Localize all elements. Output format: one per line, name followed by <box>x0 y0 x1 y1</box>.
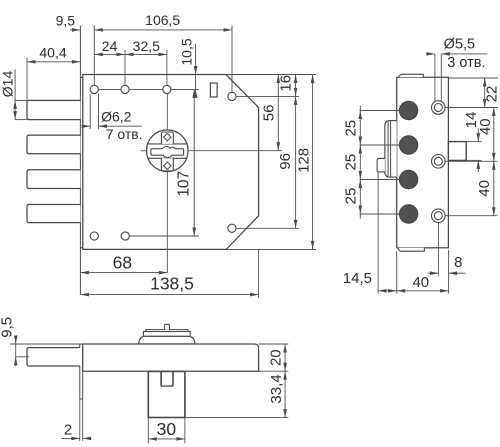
extension line from hole H2 up <box>124 50 126 85</box>
mounting hole H1 Ø6,2 <box>90 85 98 93</box>
svg-text:Ø6,2: Ø6,2 <box>101 109 132 125</box>
top holes center line <box>99 88 121 90</box>
screw hole S2 Ø5,5 countersunk <box>432 155 446 169</box>
svg-text:2: 2 <box>64 422 72 439</box>
svg-text:30: 30 <box>157 419 177 439</box>
svg-text:56: 56 <box>261 105 278 122</box>
svg-text:8: 8 <box>454 254 462 271</box>
svg-text:40,4: 40,4 <box>39 44 66 60</box>
bolt B2 end (filled circle, side view) <box>399 136 417 154</box>
svg-text:9,5: 9,5 <box>0 317 15 338</box>
keyhole horizontal center line stub (left) <box>141 150 147 152</box>
bolt B2 center line <box>360 144 400 146</box>
svg-text:9,5: 9,5 <box>56 13 76 29</box>
lock body slab (bottom view) with rounded right-top corner <box>83 344 259 371</box>
bottom mounting hole H5 <box>90 232 98 240</box>
keyhole vertical center line (down to dim 68) <box>166 172 168 273</box>
dimension 40 (plate width, bottom) <box>397 290 449 292</box>
dimension 22 <box>484 78 486 108</box>
top tab diamond hole <box>164 133 171 140</box>
svg-text:16: 16 <box>278 75 295 92</box>
side view body lip at bottom <box>398 248 424 251</box>
pin edge extension lines <box>466 141 481 143</box>
bolt B4 end (filled circle, side view) <box>399 205 417 223</box>
side view top edge extension line <box>448 77 498 79</box>
extension line from hole H1 up <box>93 26 95 86</box>
svg-text:Ø14: Ø14 <box>0 71 15 98</box>
key slot profile <box>151 147 184 158</box>
svg-text:22: 22 <box>483 86 500 103</box>
svg-text:Ø5,5: Ø5,5 <box>444 37 475 53</box>
svg-text:107: 107 <box>176 171 193 197</box>
knob top nib <box>164 324 169 329</box>
dimension 9,5 <box>70 29 80 31</box>
extension line from hole H4 up <box>231 26 233 93</box>
dimension Ø6,2 extension lines from hole H1 edges <box>89 94 91 130</box>
dimension 14 (pin) <box>477 129 479 142</box>
body bottom edge extension line <box>226 248 316 250</box>
keyhole vertical center line (up to hole H3) <box>166 94 168 130</box>
hole H7 center line <box>236 227 299 229</box>
svg-text:24: 24 <box>102 38 118 54</box>
dimension 30 <box>148 438 185 440</box>
dimension 9,5 (surface to bolt axis) <box>15 336 17 366</box>
mounting hole H2 Ø6,2 <box>121 85 129 93</box>
dimension 30 extension lines <box>147 418 149 444</box>
bolt B4 center line <box>360 213 400 215</box>
svg-text:32,5: 32,5 <box>133 38 160 54</box>
svg-text:25: 25 <box>343 188 360 205</box>
dimension 2 <box>62 437 80 439</box>
bottom mounting hole H6 <box>121 232 129 240</box>
dimension 24 <box>94 53 125 55</box>
cylinder housing bump (left of plate) <box>385 121 397 178</box>
bolt B1 end (filled circle, side view) <box>399 101 417 119</box>
lock body outline (front view) with chamfered right corners <box>83 75 259 250</box>
extension lines for dimension 2 <box>79 399 81 441</box>
svg-text:7 отв.: 7 отв. <box>106 126 143 142</box>
dimension 107 (hole rows spacing) <box>193 89 195 236</box>
svg-text:40: 40 <box>476 180 493 197</box>
svg-text:10,5: 10,5 <box>178 38 194 65</box>
svg-text:68: 68 <box>113 252 132 272</box>
faceplate strip bottom tick <box>80 398 83 400</box>
knob base dome (bottom view) <box>139 336 195 344</box>
svg-text:25: 25 <box>343 154 360 171</box>
svg-text:20: 20 <box>268 349 285 366</box>
side view main plate rectangle <box>397 77 449 248</box>
dimension 96 <box>295 96 297 228</box>
bolt center line tick <box>16 356 29 358</box>
dimension 56 (body top to keyhole center) <box>277 75 279 151</box>
svg-text:25: 25 <box>343 120 360 137</box>
bolt B3 end (filled circle, side view) <box>399 170 417 188</box>
dimension Ø5,5 arms <box>426 53 435 55</box>
svg-text:14: 14 <box>463 112 480 129</box>
mounting hole H3 Ø6,2 <box>163 85 171 93</box>
svg-text:128: 128 <box>296 148 313 173</box>
dimension 40,4 (bolt throw) <box>26 58 28 101</box>
dimension 138,5 (overall width) <box>80 294 258 296</box>
cylinder pin (right side) <box>448 142 466 161</box>
screw hole S3 Ø5,5 countersunk <box>432 209 446 223</box>
dimension 106,5 <box>94 29 232 31</box>
screw hole S1 Ø5,5 countersunk <box>432 101 446 115</box>
bolt 1 top/bottom edge extensions to Ø14 dimension <box>15 99 27 101</box>
dimension 8 <box>428 272 439 274</box>
screw hole S3 center line <box>445 215 497 217</box>
svg-text:40: 40 <box>412 274 429 291</box>
svg-text:106,5: 106,5 <box>145 12 180 28</box>
deadbolt bolt B4 (front view) <box>27 205 80 223</box>
part bottom extension line to the right <box>186 417 289 419</box>
keyhole bottom tab <box>161 158 173 171</box>
cylinder housing part below slab <box>148 371 185 417</box>
side view body lip at top <box>399 74 423 77</box>
part inner slot wall right <box>172 371 174 386</box>
dimension Ø14 (bolt diameter) <box>14 69 16 119</box>
screw hole S1 center line <box>445 107 497 109</box>
dimension 20 (slab thickness) <box>284 344 286 371</box>
deadbolt bolt B1 (front view) <box>27 100 80 119</box>
extension line from hole H3 up <box>166 50 168 85</box>
keyhole cylinder outer circle <box>147 130 189 172</box>
slab top extension line to the left <box>10 343 83 345</box>
dimension Ø6,2 arms <box>84 125 91 127</box>
dimension 68 (faceplate to keyhole center) <box>80 272 167 274</box>
extension line from bump tab down <box>377 172 379 294</box>
knob middle disc <box>143 332 190 337</box>
hole H4 center line <box>236 95 299 97</box>
mounting hole H4 Ø6,2 (at chamfer) <box>228 92 236 100</box>
dimension 40 (screw holes 1-2) <box>493 108 495 216</box>
chain dimension 25 x3 (bolt spacing) line <box>359 106 361 219</box>
part inner slot bottom <box>161 385 173 387</box>
faceplate front edge line (extended up and down as extension line) <box>79 26 81 295</box>
keyhole top tab <box>161 132 173 144</box>
keyhole band lower chord <box>148 157 187 159</box>
small rectangular slot near top right of body <box>210 83 217 97</box>
dimension 14,5 <box>378 290 397 292</box>
keyhole band upper chord <box>148 143 187 145</box>
dimension 32,5 <box>125 53 167 55</box>
bump step line 2 <box>390 121 392 178</box>
extension line from screw hole S3 down <box>437 223 439 276</box>
slab edges extension lines to the right <box>259 343 289 345</box>
svg-text:14,5: 14,5 <box>343 270 372 287</box>
svg-text:3 отв.: 3 отв. <box>447 55 485 71</box>
faceplate strip right line below slab <box>82 371 84 399</box>
extension line body right edge down <box>258 249 260 298</box>
dimension 16 <box>295 75 297 97</box>
knob upper disc <box>146 330 188 332</box>
faceplate top tick <box>80 77 82 79</box>
deadbolt bolt B3 (front view) <box>27 170 80 189</box>
svg-text:96: 96 <box>277 153 294 170</box>
screw hole S2 center line <box>445 160 497 162</box>
Ø5,5 extension lines up from screw hole S1 <box>434 54 436 102</box>
faceplate strip left line (bottom view) <box>79 344 81 348</box>
keyhole horizontal center line (right, to dim 56) <box>188 150 282 152</box>
dimension 128 (body height) <box>312 75 314 250</box>
part inner slot wall left <box>160 371 162 386</box>
svg-text:138,5: 138,5 <box>150 274 194 294</box>
bump small tab <box>377 158 385 172</box>
bottom holes center line <box>130 235 200 237</box>
dimension 33,4 <box>284 371 286 417</box>
deadbolt bolt B2 (front view) <box>27 135 80 154</box>
body top edge extension line <box>226 74 316 76</box>
extension line from plate left edge down <box>396 251 398 293</box>
extension line right edge down <box>448 250 450 294</box>
bump step line 1 <box>387 122 389 177</box>
dimension 10,5 (body top to hole row) <box>195 44 197 96</box>
bolt (bottom view) <box>27 348 80 366</box>
bolt B1 center line <box>360 110 400 112</box>
mounting hole H7 (at bottom chamfer) <box>228 224 236 232</box>
bottom tab diamond hole <box>164 162 171 169</box>
faceplate bottom tick <box>80 247 82 249</box>
bolt B3 center line <box>360 179 400 181</box>
svg-text:33,4: 33,4 <box>268 374 285 403</box>
